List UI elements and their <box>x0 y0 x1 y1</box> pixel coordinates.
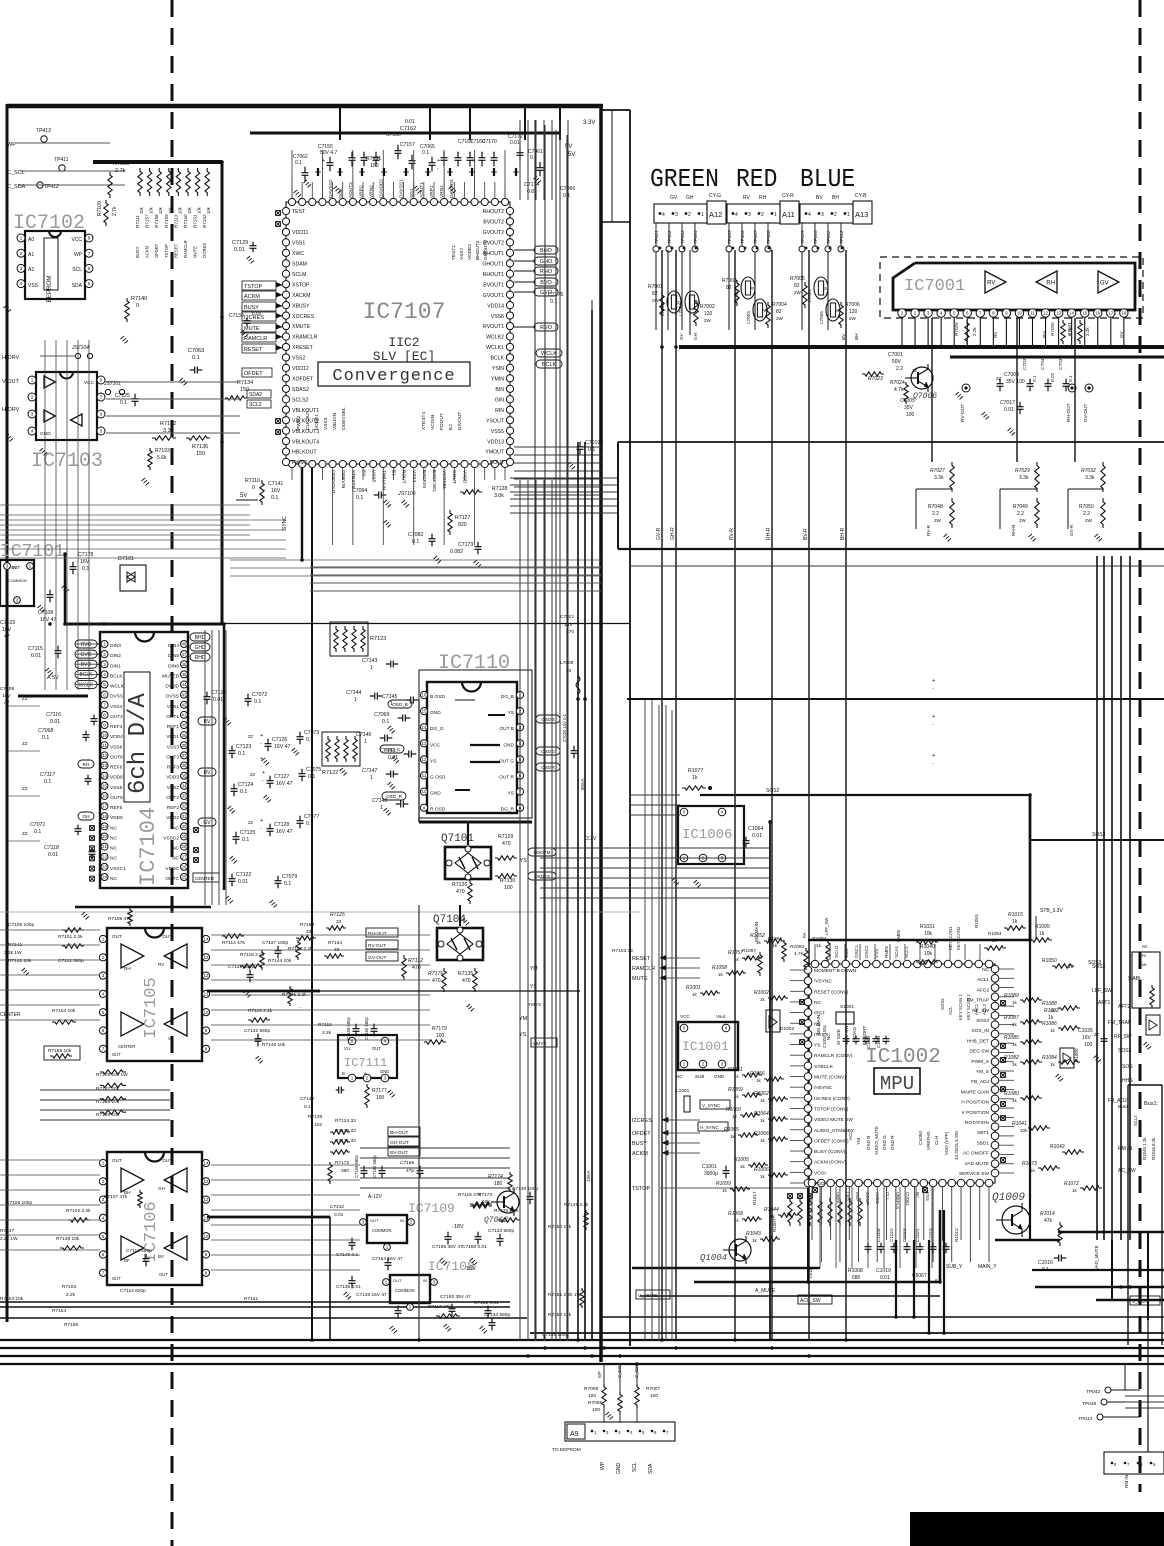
op-amp U-IC1006 <box>678 806 744 864</box>
svg-text:R7002: R7002 <box>700 304 715 310</box>
wire IC7107 bottom drops <box>302 468 475 1341</box>
node sync labels <box>698 1100 730 1131</box>
svg-text:0.01: 0.01 <box>1004 407 1014 413</box>
svg-text:COMMON: COMMON <box>372 1228 392 1233</box>
svg-text:GH: GH <box>686 195 694 201</box>
node IC1002 inner labels <box>816 994 987 1160</box>
node out labels mid sheet <box>296 912 424 1218</box>
svg-text:VCOIN: VCOIN <box>430 414 436 430</box>
svg-text:1k: 1k <box>1012 1042 1018 1047</box>
svg-text:STB_3.3V: STB_3.3V <box>1040 908 1063 914</box>
svg-text:1k: 1k <box>1050 1062 1056 1067</box>
svg-text:DIN4: DIN4 <box>168 643 179 649</box>
svg-text:16: 16 <box>421 693 427 698</box>
node right edge labels <box>1118 1104 1156 1160</box>
svg-text:0.01: 0.01 <box>234 247 245 253</box>
svg-text:Q7006: Q7006 <box>913 392 937 401</box>
svg-text:C7105 100p: C7105 100p <box>8 922 34 928</box>
svg-text:R7101 2.2k: R7101 2.2k <box>58 934 83 940</box>
svg-text:TP004: TP004 <box>693 230 698 244</box>
svg-text:IC7110: IC7110 <box>438 652 510 675</box>
node Convergence box <box>318 362 470 386</box>
svg-text:+: + <box>322 158 325 164</box>
svg-text:2.2k: 2.2k <box>66 1292 76 1298</box>
svg-text:0.1: 0.1 <box>42 735 49 741</box>
op-amp U-IC7103 <box>28 372 105 440</box>
svg-text:DIN5: DIN5 <box>168 653 179 659</box>
svg-text:V-: V- <box>168 1036 173 1041</box>
transistor Q7101 <box>441 833 491 880</box>
svg-text:C7115: C7115 <box>28 646 43 652</box>
svg-text:C7001: C7001 <box>888 352 903 358</box>
op-amp U-IC7106 <box>99 1152 209 1285</box>
ground cluster above IC7107 <box>294 176 542 197</box>
svg-text:RMIN: RMIN <box>884 946 889 958</box>
svg-text:0.1: 0.1 <box>82 566 89 572</box>
svg-text:VCC: VCC <box>430 742 441 748</box>
svg-text:4.7k: 4.7k <box>794 951 804 957</box>
svg-text:2.2k: 2.2k <box>972 327 977 336</box>
svg-text:BUSY: BUSY <box>135 246 140 258</box>
wire IC7103 outputs <box>106 382 601 591</box>
svg-text:ACKM: ACKM <box>244 294 260 300</box>
svg-text:VSS5: VSS5 <box>370 470 376 483</box>
svg-text:R7154: R7154 <box>52 1308 66 1314</box>
svg-text:BV: BV <box>841 333 846 340</box>
svg-text:10k: 10k <box>924 951 933 957</box>
wire IC7001 outputs down <box>926 318 1075 536</box>
svg-text:WCLK2: WCLK2 <box>486 335 504 341</box>
wire misc verticals <box>419 548 770 1341</box>
svg-text:POO: POO <box>814 1181 825 1187</box>
svg-text:100: 100 <box>650 1393 658 1399</box>
svg-text:R1005: R1005 <box>734 1157 749 1163</box>
svg-text:C7150 35V 47: C7150 35V 47 <box>440 1294 471 1300</box>
inductor L7005 <box>819 299 841 324</box>
svg-text:R7103 33: R7103 33 <box>612 948 633 954</box>
svg-text:VSS: VSS <box>28 283 39 289</box>
svg-text:C7122: C7122 <box>236 872 251 878</box>
svg-text:ZZ: ZZ <box>996 376 1002 381</box>
node IC7101 label <box>0 542 65 562</box>
svg-text:12: 12 <box>203 1197 209 1202</box>
svg-text:1k: 1k <box>1012 1062 1018 1067</box>
svg-text:10k: 10k <box>482 1199 490 1205</box>
wire vertical drops center <box>535 120 592 1341</box>
svg-text:0.1: 0.1 <box>382 719 389 725</box>
svg-text:C7069: C7069 <box>374 712 389 718</box>
svg-text:YM: YM <box>856 1138 861 1145</box>
svg-text:0.082: 0.082 <box>450 549 463 555</box>
svg-text:BV: BV <box>816 195 823 201</box>
svg-text:0.1: 0.1 <box>1032 375 1038 382</box>
svg-text:R7156 10k: R7156 10k <box>48 1048 72 1054</box>
svg-text:TEST: TEST <box>292 209 306 215</box>
svg-text:BH-OUT: BH-OUT <box>390 1130 408 1136</box>
svg-text:DG_R: DG_R <box>501 807 515 813</box>
svg-text:SOS_IN: SOS_IN <box>971 1028 989 1034</box>
svg-text:13: 13 <box>421 741 427 746</box>
node page fold dashed line left <box>171 0 174 1546</box>
svg-text:R7029: R7029 <box>1015 468 1030 474</box>
svg-text:C7005: C7005 <box>900 398 915 404</box>
svg-text:FA: FA <box>802 931 807 938</box>
node junction dots <box>48 104 1132 1366</box>
wire MPU left verticals2 <box>645 700 672 1341</box>
svg-text:C7125: C7125 <box>115 393 130 399</box>
svg-text:16: 16 <box>102 794 108 799</box>
svg-text:C7135 0.01: C7135 0.01 <box>336 1284 361 1290</box>
svg-text:R1084: R1084 <box>1042 1055 1057 1061</box>
svg-text:I2CRES: I2CRES <box>632 1118 652 1124</box>
svg-text:1: 1 <box>390 701 393 707</box>
svg-text:VCC: VCC <box>680 1014 690 1019</box>
svg-text:10k: 10k <box>177 206 182 214</box>
svg-text:C7117: C7117 <box>40 772 56 778</box>
node IC7107 right pin labels <box>482 209 504 466</box>
svg-text:VSS4: VSS4 <box>110 704 123 710</box>
components around IC7106 <box>0 1070 589 1338</box>
svg-text:16V 47: 16V 47 <box>276 781 293 787</box>
svg-text:R7127: R7127 <box>455 515 470 521</box>
svg-text:50V: 50V <box>892 359 902 365</box>
svg-text:3900p: 3900p <box>704 1171 718 1177</box>
svg-text:R7160: R7160 <box>183 214 188 228</box>
ground IC7102 <box>4 305 12 312</box>
capacitor C7063 <box>180 348 205 385</box>
svg-text:C7114 820p: C7114 820p <box>120 1288 146 1294</box>
svg-text:SYNC: SYNC <box>282 516 288 530</box>
svg-text:TP013: TP013 <box>1078 1416 1092 1422</box>
svg-text:REF3: REF3 <box>167 765 180 771</box>
svg-text:CY-B: CY-B <box>855 193 867 199</box>
svg-text:MUTE: MUTE <box>193 246 198 258</box>
wire IC7110 to Q7101 <box>419 818 468 845</box>
svg-text:-: - <box>437 166 439 172</box>
svg-text:TP010: TP010 <box>813 230 818 244</box>
svg-text:D1002: D1002 <box>780 1026 794 1032</box>
wire center vertical bundle <box>520 120 592 1341</box>
svg-text:C7063: C7063 <box>188 348 204 354</box>
svg-text:-: - <box>260 764 262 770</box>
svg-text:OSD R: OSD R <box>890 1135 895 1150</box>
svg-text:3.3V: 3.3V <box>586 836 597 842</box>
svg-text:43: 43 <box>181 692 187 697</box>
capacitor group left of IC7110 <box>346 658 418 815</box>
svg-text:C7132 560p: C7132 560p <box>244 1028 270 1034</box>
wire cross-links left-right <box>510 478 618 513</box>
svg-text:+: + <box>260 756 263 762</box>
node IC7104 label <box>136 807 161 886</box>
svg-text:-: - <box>260 741 262 747</box>
svg-text:BLUE: BLUE <box>800 166 855 194</box>
svg-text:19mA: 19mA <box>586 1170 591 1182</box>
wire bottom bus B <box>530 1317 1164 1333</box>
svg-text:VDD2: VDD2 <box>166 815 179 821</box>
svg-text:1k: 1k <box>734 1074 740 1079</box>
wire right corner detail <box>601 110 630 222</box>
svg-text:R7050: R7050 <box>1079 504 1094 510</box>
svg-text:SERVICE SW: SERVICE SW <box>959 1171 990 1177</box>
svg-text:13: 13 <box>203 1179 209 1184</box>
svg-text:R1014: R1014 <box>1040 1211 1055 1217</box>
svg-text:3: 3 <box>618 1430 621 1435</box>
svg-text:BHOUT2: BHOUT2 <box>475 240 481 260</box>
node RGB out terminals <box>960 384 1093 422</box>
transistor Q7104 <box>433 914 483 961</box>
svg-text:VVDD: VVDD <box>461 470 467 484</box>
svg-text:16V: 16V <box>80 559 90 565</box>
svg-text:DVSS: DVSS <box>166 694 179 700</box>
svg-text:R1015: R1015 <box>1008 912 1023 918</box>
node V_MUT label right <box>1130 1296 1160 1305</box>
svg-text:JS7104: JS7104 <box>71 345 89 351</box>
svg-text:R OSD: R OSD <box>430 807 446 813</box>
svg-text:1k: 1k <box>760 997 766 1002</box>
svg-text:680: 680 <box>852 1275 861 1281</box>
svg-text:R7129?: R7129? <box>298 1007 302 1009</box>
svg-text:RH-R: RH-R <box>1011 524 1016 536</box>
svg-text:C7143: C7143 <box>362 658 377 664</box>
svg-text:A0: A0 <box>28 237 34 243</box>
node MPU left signals <box>632 956 808 1193</box>
diode D1002 <box>766 1010 794 1032</box>
svg-text:R7173: R7173 <box>478 1192 492 1198</box>
svg-text:GV: GV <box>1119 330 1124 338</box>
svg-text:-: - <box>932 686 934 692</box>
resistor bank R7111-R7162 <box>93 162 222 258</box>
svg-text:SCLS2: SCLS2 <box>292 397 309 403</box>
svg-text:OUT4: OUT4 <box>110 714 123 720</box>
svg-text:TP042: TP042 <box>1086 1389 1100 1395</box>
svg-text:34: 34 <box>181 783 187 788</box>
svg-text:18: 18 <box>102 814 108 819</box>
svg-text:R1051: R1051 <box>728 1067 743 1073</box>
svg-text:IC7109: IC7109 <box>408 1201 455 1216</box>
svg-text:/VSYNC: /VSYNC <box>814 979 832 985</box>
node connector A13 <box>800 193 872 224</box>
svg-text:C1010: C1010 <box>889 1228 894 1242</box>
svg-text:R7134: R7134 <box>237 380 253 386</box>
svg-text:0.1: 0.1 <box>44 779 51 785</box>
svg-text:C7017: C7017 <box>1000 400 1015 406</box>
svg-text:ACKM (CONV): ACKM (CONV) <box>814 1160 847 1166</box>
svg-text:R7157: R7157 <box>145 214 150 228</box>
svg-text:0.1: 0.1 <box>271 495 278 501</box>
node corner black block <box>910 1512 1164 1546</box>
svg-text:V-OUT: V-OUT <box>2 379 19 385</box>
node IC7107 subtitle <box>373 335 435 364</box>
svg-text:MUTE: MUTE <box>244 326 260 332</box>
node OFDET label <box>242 368 272 377</box>
svg-text:XI2CRES: XI2CRES <box>292 314 315 320</box>
svg-text:VSS5: VSS5 <box>491 429 504 435</box>
svg-text:Bus1: Bus1 <box>1118 1104 1129 1109</box>
inductor L1001 <box>676 1088 690 1112</box>
svg-text:R1059: R1059 <box>728 1087 743 1093</box>
svg-text:S ABL: S ABL <box>1128 976 1142 982</box>
svg-text:YSOUT: YSOUT <box>486 418 505 424</box>
svg-text:7: 7 <box>666 1430 669 1435</box>
svg-text:R1056: R1056 <box>750 1071 765 1077</box>
svg-text:R1054: R1054 <box>988 931 1002 936</box>
svg-text:ACL1: ACL1 <box>977 977 989 983</box>
svg-text:14: 14 <box>1069 311 1075 316</box>
svg-text:C7108: C7108 <box>38 610 53 616</box>
svg-text:10: 10 <box>203 1010 209 1015</box>
svg-text:REF5: REF5 <box>110 805 123 811</box>
svg-text:ZZ: ZZ <box>22 786 28 791</box>
svg-text:R7049: R7049 <box>1013 504 1028 510</box>
wire MPU bus drops <box>896 1210 944 1333</box>
svg-text:GV-OUT: GV-OUT <box>1083 404 1089 422</box>
svg-text:MAIN_Y: MAIN_Y <box>978 1264 997 1270</box>
svg-text:30: 30 <box>181 824 187 829</box>
svg-text:R1053: R1053 <box>974 914 979 928</box>
node page fold dashed line right <box>1139 0 1142 1492</box>
svg-text:R7119 2.2k: R7119 2.2k <box>248 1008 273 1014</box>
svg-text:16: 16 <box>1095 311 1101 316</box>
node IC7107 output labels <box>514 246 558 331</box>
svg-text:C7032: C7032 <box>1022 356 1028 370</box>
svg-text:45: 45 <box>181 672 187 677</box>
svg-text:AFC2: AFC2 <box>977 987 990 993</box>
svg-text:16V 47: 16V 47 <box>276 829 293 835</box>
svg-text:C1008: C1008 <box>876 1228 881 1242</box>
svg-text:2.2: 2.2 <box>896 366 903 372</box>
svg-text:35: 35 <box>181 773 187 778</box>
inductor L7006 <box>660 291 682 316</box>
svg-text:PWM1: PWM1 <box>292 460 308 466</box>
svg-text:VSS3: VSS3 <box>167 744 180 750</box>
svg-text:R1042: R1042 <box>1050 1144 1065 1150</box>
svg-text:VDD11: VDD11 <box>292 230 308 236</box>
svg-text:23: 23 <box>102 864 108 869</box>
svg-text:-18V: -18V <box>452 1224 464 1230</box>
svg-text:33: 33 <box>306 929 312 935</box>
svg-text:DF: DF <box>124 1258 130 1263</box>
svg-text:V_SYNC: V_SYNC <box>702 1103 721 1108</box>
svg-text:R1082: R1082 <box>1004 1055 1019 1061</box>
left edge small parts <box>0 686 40 841</box>
svg-text:BH-R: BH-R <box>840 527 846 540</box>
svg-text:1k: 1k <box>1050 1028 1056 1033</box>
svg-text:OSC1: OSC1 <box>854 945 859 958</box>
node WP C_SCL C_SDA testpoints <box>7 128 125 190</box>
svg-text:0.01: 0.01 <box>252 311 262 317</box>
wire coil stubs <box>668 250 690 335</box>
svg-text:VAD_MUTE: VAD_MUTE <box>1094 1245 1099 1270</box>
svg-text:100: 100 <box>504 885 513 891</box>
svg-text:1: 1 <box>594 1430 597 1435</box>
svg-text:VSS2: VSS2 <box>292 356 305 362</box>
ground IC1006 <box>672 878 702 887</box>
svg-text:OUT: OUT <box>372 1046 381 1051</box>
svg-text:31: 31 <box>181 814 187 819</box>
svg-text:5V: 5V <box>568 152 575 158</box>
svg-text:WCLK: WCLK <box>541 351 557 357</box>
resistor R7192 <box>152 421 176 440</box>
svg-text:BHO: BHO <box>540 248 553 254</box>
svg-text:SELMAIN: SELMAIN <box>754 922 759 942</box>
svg-text:V POSITION: V POSITION <box>962 1110 990 1116</box>
svg-text:E1: E1 <box>391 470 397 476</box>
svg-text:RED: RED <box>736 166 777 194</box>
svg-text:GND: GND <box>430 791 441 797</box>
svg-text:OSD_R: OSD_R <box>386 794 403 799</box>
op-amp U-IC7111 <box>338 1035 397 1082</box>
svg-text:R1040: R1040 <box>920 944 935 950</box>
wire connector pin drops <box>656 223 841 330</box>
svg-text:11: 11 <box>422 773 427 778</box>
svg-text:A11: A11 <box>782 210 795 219</box>
svg-text:1: 1 <box>774 212 777 218</box>
svg-text:10k: 10k <box>206 206 211 214</box>
svg-text:ACKM: ACKM <box>632 1151 648 1157</box>
node IC7107 inner top labels <box>451 240 489 260</box>
svg-text:0.01: 0.01 <box>334 1212 344 1218</box>
wire faint section divider <box>0 911 640 913</box>
svg-text:GV: GV <box>679 332 684 340</box>
svg-text:CLKOUT: CLKOUT <box>305 410 311 430</box>
svg-text:DAVSS1: DAVSS1 <box>399 179 405 198</box>
op-amp U-IC7105 <box>99 928 209 1061</box>
svg-text:AUDIO_MUTE: AUDIO_MUTE <box>874 1126 879 1155</box>
svg-text:OUT B: OUT B <box>499 726 514 732</box>
svg-text:C7159 680p: C7159 680p <box>354 1155 359 1178</box>
svg-text:16V: 16V <box>1082 1035 1092 1041</box>
svg-text:KEYSCAN1: KEYSCAN1 <box>948 926 953 950</box>
resistor R7193 <box>142 448 170 485</box>
svg-text:82: 82 <box>794 283 800 289</box>
svg-text:OUT R: OUT R <box>499 775 514 781</box>
svg-text:DIN2: DIN2 <box>110 653 121 659</box>
node connector A11 <box>727 193 799 224</box>
svg-text:GHOUT1: GHOUT1 <box>482 261 504 267</box>
svg-text:GV-OUT: GV-OUT <box>368 955 386 961</box>
svg-text:R7129: R7129 <box>498 834 513 840</box>
svg-text:1k: 1k <box>730 1134 736 1139</box>
svg-text:XRESET: XRESET <box>292 345 314 351</box>
svg-text:OSD B: OSD B <box>866 1136 871 1150</box>
svg-text:14: 14 <box>203 937 209 942</box>
svg-text:R7103: R7103 <box>62 1284 76 1290</box>
svg-text:1: 1 <box>370 665 373 671</box>
svg-text:C7045: C7045 <box>1040 356 1046 370</box>
svg-text:C1001: C1001 <box>702 1164 717 1170</box>
transistor Q7006 <box>862 352 937 418</box>
node IC7107 label <box>363 299 446 325</box>
svg-text:IC7107: IC7107 <box>363 299 446 325</box>
wire left horizontal routing <box>0 520 286 558</box>
svg-text:+: + <box>262 770 265 776</box>
svg-text:R7176: R7176 <box>428 971 443 977</box>
svg-text:C1019: C1019 <box>876 1268 891 1274</box>
svg-text:17: 17 <box>1108 311 1114 316</box>
svg-text:IN: IN <box>423 1278 427 1283</box>
svg-text:OUTC: OUTC <box>165 876 179 882</box>
svg-text:C7149 100p: C7149 100p <box>542 1332 568 1338</box>
svg-text:6: 6 <box>1140 1462 1143 1467</box>
inductor L7004 <box>734 277 756 302</box>
svg-text:MI: MI <box>1142 962 1146 967</box>
svg-text:GND: GND <box>380 1069 389 1074</box>
svg-text:R7164: R7164 <box>328 940 342 946</box>
svg-text:R1068: R1068 <box>728 1211 743 1217</box>
wire IC7107 pin stubs <box>292 182 505 480</box>
node connector A12 <box>654 193 726 224</box>
svg-text:R7121: R7121 <box>244 1296 258 1302</box>
